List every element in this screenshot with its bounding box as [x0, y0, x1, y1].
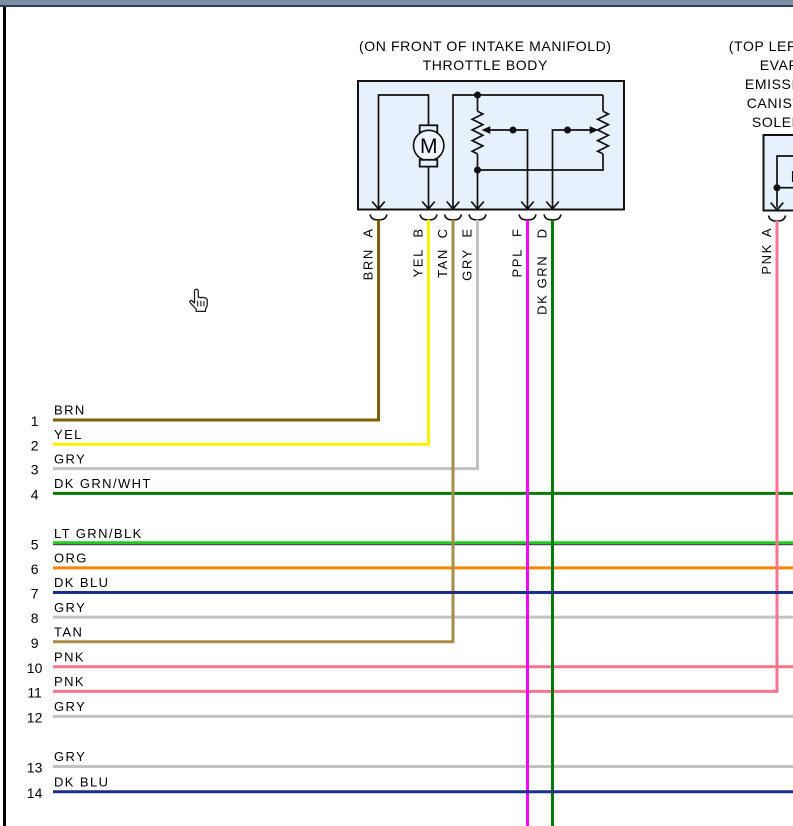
svg-text:A: A [360, 227, 375, 237]
svg-text:7: 7 [31, 586, 39, 602]
svg-text:A: A [759, 227, 774, 237]
svg-text:PNK: PNK [54, 674, 85, 689]
svg-text:(TOP LEFT OF ENGINE): (TOP LEFT OF ENGINE) [729, 38, 793, 54]
svg-text:CANISTER: CANISTER [747, 95, 793, 111]
svg-text:14: 14 [27, 785, 43, 801]
svg-text:4: 4 [31, 487, 39, 503]
svg-text:BRN: BRN [54, 403, 86, 418]
svg-text:TAN: TAN [435, 248, 450, 278]
svg-text:C: C [435, 227, 450, 238]
svg-text:DK BLU: DK BLU [54, 775, 109, 790]
svg-text:EVAPORATIVE: EVAPORATIVE [760, 57, 793, 73]
svg-text:YEL: YEL [54, 427, 83, 442]
svg-text:PNK: PNK [54, 649, 85, 664]
svg-text:YEL: YEL [410, 248, 425, 277]
svg-text:ORG: ORG [54, 551, 88, 566]
svg-text:TAN: TAN [54, 625, 83, 640]
svg-text:E: E [459, 227, 474, 237]
svg-text:PNK: PNK [759, 243, 774, 275]
svg-text:1: 1 [31, 413, 39, 429]
svg-text:GRY: GRY [54, 749, 86, 764]
svg-text:13: 13 [27, 760, 43, 776]
svg-text:LT GRN/BLK: LT GRN/BLK [54, 526, 143, 541]
svg-text:M: M [420, 135, 438, 158]
svg-text:GRY: GRY [459, 248, 474, 281]
svg-text:(ON FRONT OF INTAKE MANIFOLD): (ON FRONT OF INTAKE MANIFOLD) [359, 38, 612, 54]
svg-text:F: F [509, 227, 524, 237]
svg-text:GRY: GRY [54, 451, 86, 466]
svg-text:PPL: PPL [509, 248, 524, 277]
svg-text:D: D [534, 227, 549, 238]
svg-text:BRN: BRN [360, 248, 375, 280]
svg-text:EMISSION: EMISSION [745, 76, 793, 92]
svg-text:DK GRN: DK GRN [534, 255, 549, 315]
svg-text:9: 9 [31, 635, 39, 651]
svg-text:B: B [410, 227, 425, 237]
svg-text:8: 8 [31, 610, 39, 626]
svg-text:GRY: GRY [54, 600, 86, 615]
svg-text:GRY: GRY [54, 699, 86, 714]
svg-text:DK BLU: DK BLU [54, 575, 109, 590]
svg-text:2: 2 [31, 437, 39, 453]
svg-text:11: 11 [27, 685, 42, 701]
svg-text:10: 10 [27, 660, 43, 676]
svg-text:DK GRN/WHT: DK GRN/WHT [54, 476, 152, 491]
svg-text:3: 3 [31, 462, 39, 478]
svg-text:5: 5 [31, 537, 39, 553]
svg-text:12: 12 [27, 710, 43, 726]
svg-text:6: 6 [31, 561, 39, 577]
svg-text:THROTTLE BODY: THROTTLE BODY [423, 57, 548, 73]
svg-text:SOLENOID: SOLENOID [752, 114, 793, 130]
